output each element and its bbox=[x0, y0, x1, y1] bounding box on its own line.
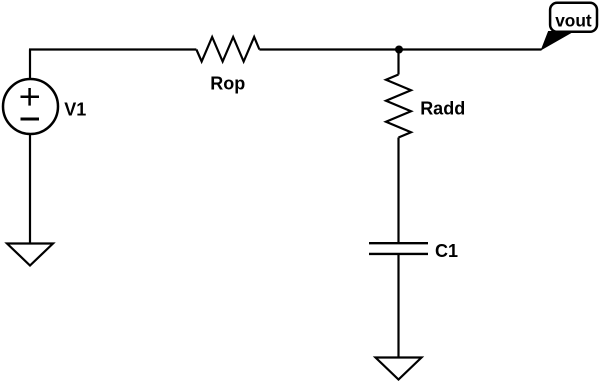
wire V1 bottom to ground bbox=[29, 135, 31, 244]
svg-text:C1: C1 bbox=[435, 241, 458, 261]
wire junction to Radd top bbox=[397, 50, 399, 75]
resistor Rop bbox=[196, 37, 259, 62]
svg-text:V1: V1 bbox=[64, 99, 86, 119]
net flag vout bbox=[542, 3, 598, 50]
wire junction to vout flag bbox=[399, 48, 542, 50]
node junction (vout net) bbox=[395, 46, 403, 54]
wire C1 bottom to ground bbox=[397, 254, 399, 358]
wire corner to Rop left bbox=[29, 48, 196, 50]
wire Rop right to junction bbox=[259, 48, 399, 50]
voltage source V1 bbox=[3, 79, 58, 134]
svg-text:Rop: Rop bbox=[210, 74, 245, 94]
resistor Radd bbox=[386, 75, 411, 138]
ground below C1 bbox=[376, 358, 422, 380]
ground below V1 bbox=[7, 244, 53, 266]
capacitor C1 bbox=[369, 243, 428, 254]
svg-text:vout: vout bbox=[555, 10, 592, 30]
wire Radd bottom to C1 bbox=[397, 138, 399, 244]
wire V1 top to corner bbox=[29, 50, 31, 79]
svg-text:Radd: Radd bbox=[420, 99, 465, 119]
